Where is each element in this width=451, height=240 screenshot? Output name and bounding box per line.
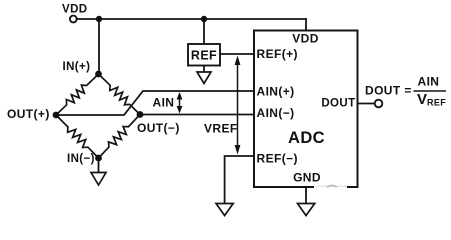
ADC block U1 <box>254 31 358 188</box>
resistor R4 (bridge bottom-right) <box>99 115 141 159</box>
AIN differential double arrow <box>177 92 183 114</box>
VREF measurement double arrow <box>235 56 241 155</box>
svg-text:DOUT =: DOUT = <box>365 84 412 98</box>
svg-text:VDD: VDD <box>292 32 319 46</box>
node junction on rail above REF <box>201 16 207 22</box>
wire OUT(+) to AIN(+) pin <box>56 91 254 115</box>
ground below REF block <box>197 72 211 84</box>
wire VDD rail to ADC VDD pin <box>305 19 307 31</box>
wire OUT(-) to AIN(-) pin <box>140 114 254 116</box>
VDD terminal circle <box>70 16 77 23</box>
wire REF(-) pin to ground <box>225 156 254 204</box>
svg-text:GND: GND <box>293 171 321 185</box>
wire REF output to REF(+) pin <box>220 53 254 55</box>
svg-text:REF(+): REF(+) <box>257 47 298 61</box>
svg-text:AIN(−): AIN(−) <box>257 106 295 120</box>
svg-text:AIN: AIN <box>418 75 440 89</box>
ground below IN(-) <box>91 173 106 186</box>
resistor R3 (bridge bottom-left) <box>56 115 99 158</box>
svg-text:DOUT: DOUT <box>321 98 355 110</box>
DOUT terminal circle <box>375 100 383 108</box>
svg-text:IN(+): IN(+) <box>63 61 91 73</box>
svg-text:OUT(+): OUT(+) <box>7 107 50 121</box>
wire VDD rail to REF block <box>203 19 205 44</box>
svg-text:OUT(−): OUT(−) <box>137 121 180 135</box>
node IN(+) bridge top <box>95 71 102 78</box>
svg-text:VREF: VREF <box>204 121 238 135</box>
ground below REF(-) wire <box>216 204 233 216</box>
svg-text:ADC: ADC <box>288 129 325 147</box>
wire IN(-) node to ground <box>98 158 100 173</box>
wire REF block to ground <box>203 66 205 73</box>
node junction on rail above bridge <box>96 16 102 22</box>
wire GND pin stub <box>305 187 307 204</box>
wire DOUT pin <box>358 103 375 105</box>
node OUT(+) bridge left <box>53 112 60 119</box>
svg-text:IN(−): IN(−) <box>67 153 95 165</box>
node IN(-) bridge bottom <box>95 155 102 162</box>
svg-text:REF: REF <box>427 98 446 108</box>
watermark erase patch on ADC bottom edge <box>314 185 347 189</box>
wire VDD top rail <box>77 18 306 20</box>
node OUT(-) bridge right <box>137 111 144 118</box>
svg-text:VDD: VDD <box>62 3 87 15</box>
formula DOUT = AIN / VREF <box>365 75 446 108</box>
svg-text:REF: REF <box>191 49 217 63</box>
ground below GND pin <box>298 204 315 216</box>
resistor R1 (bridge top-left) <box>56 74 99 115</box>
REF block U2 <box>188 44 220 66</box>
svg-text:AIN: AIN <box>153 95 175 109</box>
svg-text:AIN(+): AIN(+) <box>257 84 295 98</box>
svg-text:REF(−): REF(−) <box>257 152 298 166</box>
resistor R2 (bridge top-right) <box>99 74 141 115</box>
svg-text:V: V <box>417 91 427 108</box>
wire VDD rail to bridge top node <box>98 19 100 74</box>
